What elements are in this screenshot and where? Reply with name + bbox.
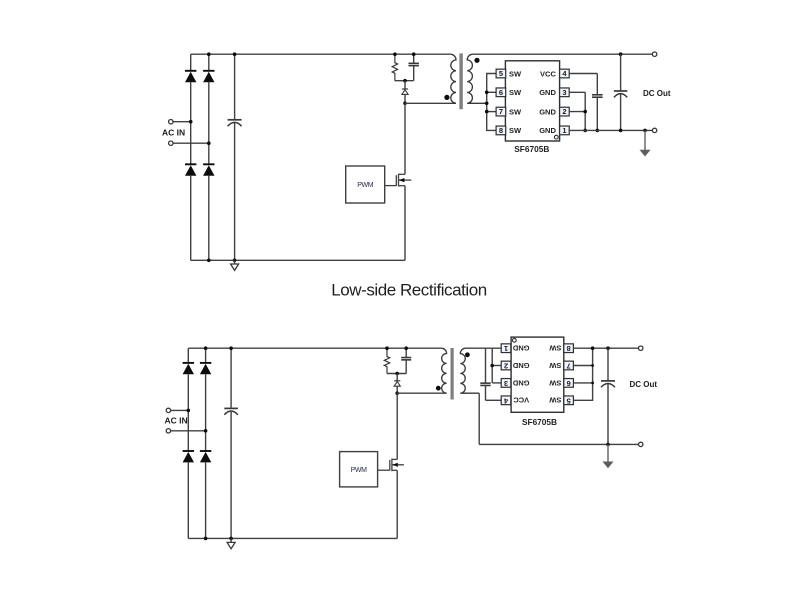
svg-text:SW: SW (509, 88, 522, 97)
svg-text:8: 8 (567, 344, 571, 353)
wire: snubber bottom bar (395, 80, 414, 82)
wire: top rail (circuit 2) (188, 347, 441, 349)
transformer T1 secondary winding (467, 54, 487, 103)
svg-text:AC IN: AC IN (162, 128, 185, 138)
block U2: PWM controller box (346, 166, 385, 203)
svg-text:GND: GND (539, 107, 556, 116)
svg-text:SW: SW (548, 361, 561, 370)
junction: SW bus / pin 6 (485, 91, 489, 95)
svg-text:GND: GND (512, 378, 529, 387)
pin 5 box (U1 left) (496, 69, 506, 78)
junction: VCC cap / output ground rail (596, 129, 600, 133)
junction: clamp diode / primary bottom node (403, 102, 407, 106)
svg-text:1: 1 (562, 126, 566, 135)
pin 1 box (U3 left) (501, 344, 511, 353)
pin 1 indicator circle (U3) (512, 338, 516, 342)
wire: bottom rail (circuit 2) (188, 537, 397, 539)
svg-text:2: 2 (504, 361, 508, 370)
junction: SW bus / pin 6 (c2) (591, 382, 594, 385)
junction: top rail / snubber cap (412, 52, 416, 56)
svg-text:3: 3 (504, 379, 508, 388)
wire: bridge left column upper segment (190, 54, 192, 71)
diode D1 (bridge upper-left) (185, 71, 196, 82)
wire: GND tie vertical (584, 92, 586, 130)
transformer T2 primary winding (441, 348, 446, 393)
junction: top rail2 / bulk cap column (229, 346, 233, 350)
junction: AC upper lead / left column (189, 120, 193, 124)
wire: pin 8 row / output + rail (c2) (573, 347, 638, 349)
wire: snubber cap upper stub (413, 54, 415, 63)
pin 2 box (U3 left) (501, 361, 511, 370)
wire: output ground rail (circuit 2) (479, 443, 638, 445)
terminal: DC out - (circuit 1) (652, 128, 656, 132)
wire: bulk cap column upper segment (234, 54, 236, 119)
wire: clamp diode lower stub (c2) (396, 386, 398, 393)
wire: snubber2 cap lower stub (405, 360, 407, 374)
wire: MOSFET drain lead (404, 103, 406, 174)
wire: bulk cap column lower (c2) (230, 411, 232, 538)
resistor R1 (snubber) (392, 54, 397, 80)
terminal: DC out + (circuit 2) (639, 346, 643, 350)
op-amp U3: SF6705B IC body (circuit 2, rotated 180) (511, 337, 564, 412)
pin 5 box (U3 right) (564, 396, 574, 405)
svg-text:6: 6 (567, 379, 571, 388)
pin 7 box (U3 right) (564, 361, 574, 370)
junction: output + rail / output cap (619, 52, 623, 56)
transformer T1 core (459, 53, 462, 109)
capacitor C4 plates (614, 91, 627, 97)
junction: bottom rail2 / bulk cap column (229, 537, 233, 541)
wire: VCC cap line upper (c2) (485, 348, 487, 383)
block U4: PWM controller box (circuit 2) (340, 452, 378, 487)
wire: bridge right column lower segment (208, 176, 210, 261)
diode D5 (clamp) (402, 89, 408, 94)
wire: output cap lower segment (c2) (607, 384, 609, 445)
pin 2 box (U1 right) (560, 107, 570, 116)
pin 8 box (U1 left) (496, 126, 506, 135)
svg-text:5: 5 (499, 69, 503, 78)
ground: secondary ground symbol (circuit 1) (640, 150, 649, 156)
wire: bridge2 left column middle segment (187, 374, 189, 451)
wire: VCC (pin 4) lead (569, 73, 597, 75)
transformer T2 core (451, 348, 454, 400)
wire: clamp diode upper stub (c2) (396, 374, 398, 381)
diode D4 (bridge lower-right) (203, 164, 214, 175)
svg-text:2: 2 (562, 107, 566, 116)
wire: output ground rail (circuit 1) (569, 129, 652, 131)
wire: pin 2 stub (c2) (492, 365, 501, 367)
svg-text:SW: SW (548, 378, 561, 387)
capacitor C5 (bulk electrolytic, circuit 2) (224, 408, 238, 414)
wire: pin 7 stub (c2) (573, 365, 592, 367)
op-amp U1: SF6705B IC body (circuit 1) (505, 61, 559, 141)
svg-text:PWM: PWM (351, 467, 367, 474)
wire: pin 6 stub (c2) (573, 382, 592, 384)
wire: snubber2 bottom bar (387, 373, 406, 375)
wire: bridge2 right column upper segment (205, 348, 207, 363)
wire: ground stub (circuit 1) (234, 260, 236, 264)
svg-text:DC Out: DC Out (643, 89, 671, 98)
wire: pin 6 stub (487, 91, 496, 93)
wire: bridge right column middle segment (208, 82, 210, 164)
wire: bulk cap column upper (c2) (230, 348, 232, 407)
diode D10 (clamp, circuit 2) (394, 381, 400, 386)
svg-text:PWM: PWM (357, 182, 373, 189)
junction: top rail / bulk cap column (233, 52, 237, 56)
wire: AC lower lead (circuit 2) (171, 430, 206, 432)
transformer T1 primary winding (450, 54, 456, 103)
svg-text:3: 3 (562, 88, 566, 97)
wire: bridge right column upper segment (208, 54, 210, 71)
wire: AC input lower lead (173, 142, 209, 144)
junction: output ground rail / output cap (619, 129, 623, 133)
terminal: AC input lower (169, 141, 173, 145)
diode D3 (bridge lower-left) (185, 164, 196, 175)
junction: snubber2 bar / clamp diode (395, 372, 399, 376)
capacitor C6 (snubber, circuit 2) (401, 358, 411, 360)
svg-text:SW: SW (509, 69, 522, 78)
ground: secondary ground symbol (circuit 2) (603, 462, 612, 468)
diode D7 (bridge2 upper-right) (200, 363, 211, 374)
polarity dot: T1 primary (444, 95, 449, 100)
wire: VCC cap line lower (c2) (485, 386, 487, 401)
diode D2 (bridge upper-right) (203, 71, 214, 82)
wire: SW bus (circuit 2) (573, 348, 592, 400)
svg-text:SW: SW (548, 396, 561, 405)
pin 1 box (U1 right) (560, 126, 570, 135)
ground: primary-side ground symbol (circuit 1) (231, 264, 239, 270)
svg-text:GND: GND (512, 344, 529, 353)
capacitor C2 (snubber) (409, 63, 419, 65)
wire: bottom rail (circuit 1, primary return) (191, 259, 405, 261)
svg-text:SW: SW (509, 126, 522, 135)
wire: primary bottom lead (405, 102, 456, 104)
ground: primary-side ground symbol (circuit 2) (227, 542, 235, 548)
resistor R2 (snubber, circuit 2) (384, 348, 389, 373)
wire: AC upper lead (circuit 2) (171, 409, 189, 411)
wire: chassis ground stub (circuit 2) (607, 444, 609, 462)
wire: secondary bottom drop (c2) (478, 393, 480, 444)
terminal: DC out - (circuit 2) (639, 442, 643, 446)
pin 4 box (U3 left) (501, 396, 511, 405)
diode D6 (bridge2 upper-left) (183, 363, 194, 374)
wire: bridge2 right column middle segment (205, 374, 207, 451)
wire: output + rail (circuit 1) (473, 53, 653, 55)
wire: top rail (circuit 1, rectified +) (191, 53, 451, 55)
junction: bottom rail / bridge right column (207, 259, 211, 263)
junction: GND tie / pin 2 (c2) (490, 364, 494, 368)
wire: ground stub (circuit 2) (230, 538, 232, 542)
terminal: AC input upper (circuit 2) (166, 408, 170, 412)
junction: pin 2 / GND tie (583, 110, 587, 114)
wire: MOSFET drain lead (c2) (396, 393, 398, 459)
pin 6 box (U1 left) (496, 88, 506, 97)
wire: pin 3 lead (c2) (492, 382, 501, 384)
wire: VCC cap upper segment (596, 74, 598, 95)
junction: SW bus / pin 7 (c2) (591, 364, 594, 367)
svg-text:Low-side Rectification: Low-side Rectification (331, 280, 486, 299)
junction: clamp diode / primary bottom node (c2) (395, 391, 399, 395)
wire: bridge2 right column lower segment (205, 462, 207, 538)
svg-text:1: 1 (504, 344, 508, 353)
junction: top rail2 / snubber cap (404, 346, 408, 350)
junction: top rail / bridge right column (207, 52, 211, 56)
wire: snubber cap lower stub (413, 66, 415, 81)
junction: bottom rail2 / bridge right column (204, 537, 208, 541)
wire: pin 4 lead (c2) (486, 399, 502, 401)
capacitor C3 (VCC decoupling) (592, 95, 603, 97)
junction: top rail2 / bridge right column (204, 346, 208, 350)
wire: MOSFET source lead (c2) (396, 470, 398, 538)
wire: bridge left column middle segment (190, 82, 192, 164)
svg-text:6: 6 (499, 88, 503, 97)
wire: GND tie vertical (c2) (491, 348, 493, 383)
svg-text:5: 5 (567, 396, 571, 405)
junction: output ground rail / chassis ground (643, 129, 647, 133)
svg-text:SF6705B: SF6705B (514, 144, 549, 154)
junction: top rail / snubber resistor (393, 52, 397, 56)
wire: primary bottom lead (c2) (397, 392, 446, 394)
junction: GND tie / output ground rail (583, 129, 587, 133)
pin 1 indicator circle (U1) (554, 135, 558, 139)
wire: VCC cap lower segment (596, 97, 598, 130)
junction: AC lower lead / right column (c2) (204, 429, 208, 433)
svg-text:GND: GND (539, 88, 556, 97)
diode D8 (bridge2 lower-left) (183, 451, 194, 462)
terminal: AC input lower (circuit 2) (166, 429, 170, 433)
junction: SW bus / secondary bottom (485, 102, 489, 106)
wire: output cap lower segment (620, 94, 622, 131)
svg-text:SF6705B: SF6705B (522, 417, 557, 427)
wire: chassis ground stub (circuit 1) (644, 130, 646, 150)
svg-text:7: 7 (567, 361, 571, 370)
transistor Q1 (power MOSFET) (385, 174, 412, 187)
transistor Q2 (power MOSFET, circuit 2) (378, 459, 404, 472)
capacitor C7 (VCC decoupling, circuit 2) (480, 383, 490, 385)
junction: snubber bar / clamp diode (403, 79, 407, 83)
terminal: DC out + (circuit 1) (652, 52, 656, 56)
wire: pin 2 (GND) lead (569, 111, 585, 113)
svg-text:SW: SW (509, 107, 522, 116)
wire: bridge2 left column upper segment (187, 348, 189, 363)
junction: bottom rail / bulk cap column (233, 259, 237, 263)
pin 8 box (U3 right) (564, 344, 574, 353)
wire: pin 7 stub (487, 111, 496, 113)
wire: output cap upper segment (c2) (607, 348, 609, 381)
junction: AC upper lead / left column (c2) (187, 409, 191, 413)
diode D9 (bridge2 lower-right) (200, 451, 211, 462)
pin 6 box (U3 right) (564, 379, 574, 388)
junction: top rail2 / snubber resistor (385, 346, 389, 350)
wire: bridge2 left column lower segment (187, 462, 189, 538)
polarity dot: T2 primary (436, 386, 441, 391)
wire: clamp diode upper stub (404, 81, 406, 89)
junction: SW bus top / pin8 row (c2) (591, 346, 595, 350)
svg-text:DC Out: DC Out (630, 380, 658, 389)
svg-text:SW: SW (548, 344, 561, 353)
pin 7 box (U1 left) (496, 107, 506, 116)
svg-text:AC IN: AC IN (165, 416, 188, 426)
svg-text:8: 8 (499, 126, 503, 135)
pin 4 box (U1 right) (560, 69, 570, 78)
wire: AC input upper lead (173, 121, 191, 123)
junction: output + rail / output cap (c2) (606, 346, 610, 350)
svg-text:GND: GND (512, 361, 529, 370)
capacitor C8 (output electrolytic, circuit 2) (601, 381, 615, 387)
svg-text:VCC: VCC (513, 396, 529, 405)
junction: output ground rail / output cap (c2) (606, 443, 610, 447)
capacitor C4 (output electrolytic) (620, 54, 622, 91)
pin 3 box (U1 right) (560, 88, 570, 97)
pin 3 box (U3 left) (501, 379, 511, 388)
svg-text:VCC: VCC (540, 69, 556, 78)
polarity dot: T1 secondary (474, 58, 479, 63)
wire: bulk cap column lower segment (234, 123, 236, 260)
terminal: AC input upper (169, 120, 173, 124)
capacitor C1 (bulk electrolytic) (228, 120, 242, 126)
svg-text:GND: GND (539, 126, 556, 135)
svg-text:7: 7 (499, 107, 503, 116)
wire: MOSFET source lead (404, 186, 406, 261)
wire: bridge left column lower segment (190, 176, 192, 261)
wire: pin 3 (GND) lead (569, 91, 585, 93)
junction: SW bus / pin 7 (485, 110, 489, 114)
wire: SW bus (pins 5-8 common) (487, 74, 496, 131)
wire: secondary top rail (c2, to pin 1) (466, 347, 502, 349)
wire: snubber2 cap upper stub (405, 348, 407, 357)
polarity dot: T2 secondary (465, 352, 470, 357)
wire: clamp diode lower stub (404, 94, 406, 103)
junction: AC lower lead / right column (207, 141, 211, 145)
transformer T2 secondary winding (460, 348, 479, 393)
